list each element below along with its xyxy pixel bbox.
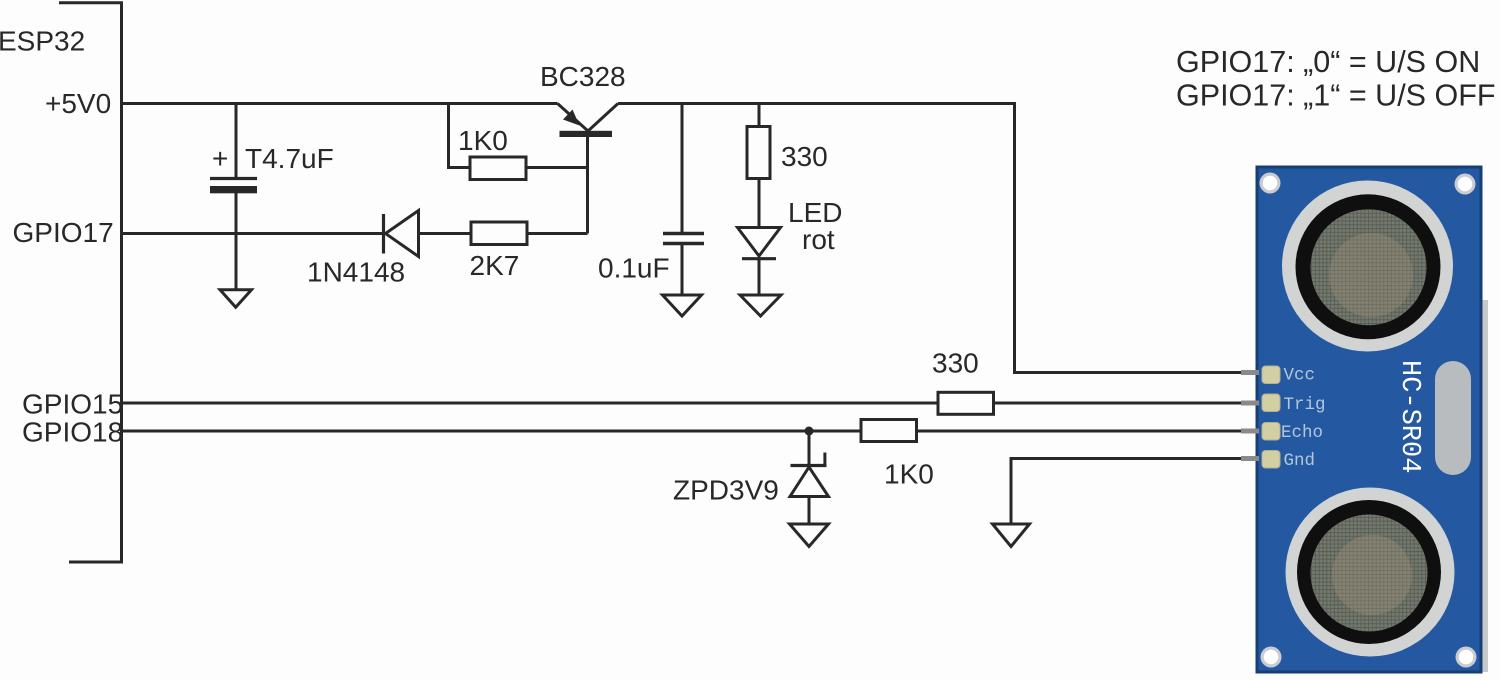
wire Gnd pin to ground [1011,459,1243,524]
svg-text:330: 330 [932,348,979,379]
ground (C1) [220,290,252,308]
ground (C2) [663,295,702,316]
wire 1K0 left stub to +5V [449,102,471,168]
svg-text:GPIO17: „0“ = U/S ON: GPIO17: „0“ = U/S ON [1176,45,1480,79]
resistor R2 1K0 (base pullup) [470,157,526,180]
svg-text:Echo: Echo [1281,423,1323,443]
transistor Q1 BC328 (PNP) [558,104,619,234]
wire GPIO18 to 1K0 [120,430,860,433]
wire 330 to Trig pin [994,402,1243,405]
mounting hole bottom-left [1261,647,1282,668]
wire diode to 2K7 [419,232,472,235]
ground (LED) [740,295,781,316]
diode D1 1N4148 [384,211,419,257]
capacitor C1 T4.7uF [210,104,257,290]
mounting hole top-right [1455,174,1476,195]
svg-text:ESP32: ESP32 [0,26,85,57]
svg-text:+: + [212,143,228,174]
wire +5V0 rail left [120,102,558,105]
wire GPIO17 to diode [120,232,382,235]
resistor R3 2K7 [471,222,527,245]
svg-text:Vcc: Vcc [1284,366,1316,386]
mounting hole bottom-right [1456,647,1477,668]
ESP32 block outline [59,3,122,562]
svg-text:1K0: 1K0 [884,459,934,490]
wire collector rail to HC-SR04 Vcc [618,104,1243,373]
svg-text:rot: rot [802,224,835,255]
junction node GPIO18/zener [805,427,814,436]
pin stub Echo [1241,429,1259,434]
pin pad Vcc [1262,366,1280,384]
crystal oscillator [1435,361,1471,475]
transducer bottom (receiver) [1286,488,1455,657]
svg-text:330: 330 [781,141,828,172]
capacitor C2 0.1uF [663,104,704,295]
svg-text:2K7: 2K7 [470,250,520,281]
wire 1K0 to Echo pin [917,430,1243,433]
svg-text:Gnd: Gnd [1284,451,1316,471]
svg-text:Trig: Trig [1284,395,1326,415]
svg-text:GPIO18: GPIO18 [22,417,123,448]
svg-text:ZPD3V9: ZPD3V9 [673,475,779,506]
zener D3 ZPD3V9 [790,431,829,524]
wire GPIO15 to 330 [120,402,937,405]
mounting hole top-left [1260,173,1281,194]
HC-SR04 module PCB [1241,167,1488,672]
svg-text:HC-SR04: HC-SR04 [1394,360,1424,473]
svg-text:GPIO17: GPIO17 [13,217,114,248]
transducer top (transmitter) [1282,181,1453,352]
ground (zener) [790,524,829,547]
svg-text:BC328: BC328 [540,61,626,92]
svg-text:GPIO15: GPIO15 [22,389,123,420]
pin pad Trig [1262,394,1280,412]
svg-text:0.1uF: 0.1uF [598,253,670,284]
resistor R5 330 (Trig) [938,392,994,414]
svg-text:1N4148: 1N4148 [307,257,405,288]
svg-text:GPIO17: „1“ = U/S OFF: GPIO17: „1“ = U/S OFF [1176,79,1495,113]
pin stub Vcc [1241,370,1259,375]
PCB right side edge highlight [1483,300,1489,672]
LED D2 rot [738,228,781,295]
svg-text:+5V0: +5V0 [45,88,111,119]
wire 2K7 right to base [527,232,588,235]
svg-text:1K0: 1K0 [458,125,508,156]
resistor R6 1K0 (Echo) [861,420,917,442]
wire 1K0 right to base [526,166,588,169]
resistor R4 330 (LED) [747,104,770,228]
ground (Gnd pin) [993,524,1030,547]
svg-text:T4.7uF: T4.7uF [245,143,334,174]
pin stub Gnd [1241,456,1259,461]
pin pad Echo [1262,423,1280,441]
pin pad Gnd [1262,451,1280,469]
pin stub Trig [1241,401,1259,406]
